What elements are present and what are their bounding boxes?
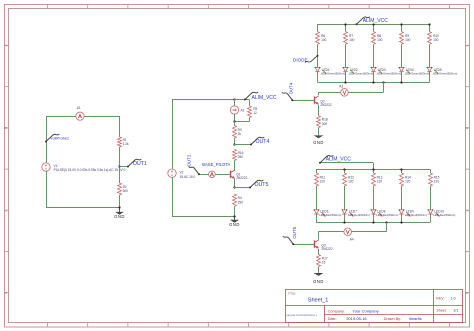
svg-text:C: C (466, 209, 468, 213)
svg-text:LED-Green(563nm): LED-Green(563nm) (377, 71, 402, 75)
transistor Q2 2N2222 (315, 96, 332, 107)
wire V A4 right (352, 231, 387, 233)
svg-text:LED-Red(633nm): LED-Red(633nm) (376, 213, 398, 217)
wire left-top segment b (84, 116, 119, 118)
transistor Q1 2N2222 (231, 170, 248, 180)
wire right vertical bottom (119, 195, 121, 208)
svg-text:OUT5: OUT5 (292, 226, 297, 238)
wire A2-R5 bottom link (234, 121, 250, 123)
wire array2 col1 bottom lead (316, 214, 318, 222)
title value date (346, 316, 367, 321)
svg-text:2N2222: 2N2222 (321, 247, 332, 251)
svg-text:GND: GND (313, 140, 324, 145)
wire array1 col1 R top lead (317, 24, 319, 32)
resistor R14 (400, 173, 412, 186)
junction array2 bottom bus col4 (400, 221, 402, 223)
svg-text:2k: 2k (238, 132, 242, 136)
junction array1 bottom bus col4 (400, 81, 402, 83)
title value Your Company (352, 309, 378, 314)
svg-text:1/1: 1/1 (453, 308, 458, 312)
ground Q2 (313, 135, 324, 145)
junction below A2 (233, 120, 235, 122)
svg-text:OUT2: OUT2 (187, 154, 192, 166)
wire right vertical mid (119, 147, 121, 183)
voltage probe OUT4 at Q2 (282, 82, 294, 101)
transistor Q3 2N2222 (315, 240, 333, 251)
wire array1 col3 mid (373, 44, 375, 67)
resistor R4 (233, 194, 244, 206)
resistor R18 (317, 116, 328, 128)
svg-text:D: D (5, 291, 7, 295)
voltage source V1 (42, 163, 50, 171)
voltage probe OUT4 (250, 137, 269, 146)
LED LED3 (371, 67, 402, 76)
wire A2-R5 top link (234, 99, 250, 101)
svg-text:LED-Green(563nm): LED-Green(563nm) (433, 71, 458, 75)
wire array1 col2 R top lead (345, 24, 347, 32)
svg-text:120: 120 (348, 180, 354, 184)
ammeter A1 (76, 106, 84, 120)
wire Q3 collector riser (318, 232, 320, 240)
svg-text:LED-Red(633nm): LED-Red(633nm) (433, 213, 455, 217)
svg-text:100: 100 (349, 38, 355, 42)
title value 1.0 (450, 297, 455, 301)
wire V A4 left (318, 231, 344, 233)
wire array1 col2 bottom lead (345, 72, 347, 83)
svg-text:A: A (5, 44, 7, 48)
wire middle bottom (172, 216, 234, 218)
svg-text:100: 100 (433, 38, 439, 42)
net probe ALIM_VCC middle (244, 92, 277, 101)
wire Q1 collector joint (234, 170, 236, 171)
wire base left segment (199, 174, 209, 176)
junction array2 top bus col2 (343, 168, 345, 170)
resistor R13 (372, 173, 383, 186)
wire left vertical upper (46, 116, 48, 163)
voltage probe OUT1 (127, 159, 147, 168)
svg-text:300: 300 (322, 122, 328, 126)
wire V A3 riser (383, 82, 385, 92)
junction middle top (233, 98, 235, 100)
title label Date (328, 317, 337, 321)
current probe A2 (230, 106, 244, 114)
wire ALIM_VCC jog array2 (373, 163, 375, 170)
wire R16 to Q1 collector (234, 161, 236, 171)
wire array2 bottom bus (316, 222, 430, 224)
title label Sheet (436, 308, 446, 312)
wire Q3 base (293, 244, 314, 246)
wire left vertical lower (46, 171, 48, 208)
wire Q2 collector riser (318, 92, 320, 95)
resistor R11 (315, 173, 326, 186)
svg-text:Sheet_1: Sheet_1 (308, 298, 329, 304)
wire R4 to bottom (234, 206, 236, 216)
wire array2 col4 mid (401, 186, 403, 210)
LED LED2 (343, 67, 374, 76)
wire base segment (215, 174, 229, 176)
wire array1 col3 R top lead (373, 24, 375, 32)
voltage probe voltProbe1 (45, 134, 69, 143)
wire array1 col1 bottom lead (317, 72, 319, 83)
wire right vertical top (119, 116, 121, 137)
title label REV (436, 297, 444, 301)
LED LED9 (399, 209, 427, 217)
wire R3 to OUT4 (234, 138, 236, 144)
svg-text:ilmartis: ilmartis (409, 316, 422, 321)
svg-text:Drawn By:: Drawn By: (384, 317, 402, 321)
voltage source V2 (168, 169, 176, 177)
svg-text:easyeda.com/ilmartis/Sheet_1: easyeda.com/ilmartis/Sheet_1 (287, 314, 318, 317)
title value Sheet_1 (308, 298, 329, 304)
svg-text:BASE_PILOTA: BASE_PILOTA (202, 162, 230, 167)
svg-text:GND: GND (229, 222, 240, 227)
svg-text:LED-Red(633nm): LED-Red(633nm) (405, 213, 427, 217)
net probe ALIM_VCC array1 (356, 17, 389, 26)
svg-text:15 AC 15 0: 15 AC 15 0 (180, 175, 196, 179)
resistor R15 (429, 173, 440, 186)
resistor R6 (316, 32, 327, 45)
svg-text:100: 100 (377, 38, 383, 42)
wire A2 top pin (234, 100, 236, 106)
svg-text:A2: A2 (241, 108, 245, 112)
ground left circuit (114, 208, 125, 219)
svg-text:100: 100 (405, 38, 411, 42)
junction array2 V-branch (385, 221, 387, 223)
wire array2 col5 mid (430, 186, 432, 210)
wire Q1 emitter down (234, 179, 236, 188)
svg-text:OUT4: OUT4 (289, 82, 294, 94)
LED LED6 (314, 209, 342, 217)
svg-text:LED-Green(563nm): LED-Green(563nm) (349, 71, 374, 75)
wire array2 col5 R top lead (430, 169, 432, 173)
wire R18 to GND (318, 128, 320, 136)
svg-text:ALIM_VCC: ALIM_VCC (252, 95, 277, 101)
svg-text:Company:: Company: (328, 310, 345, 314)
junction array1 top bus col3 (372, 23, 374, 25)
junction at left GND (118, 206, 120, 208)
resistor R16 (233, 150, 244, 161)
node OUT4 junction (233, 143, 235, 145)
svg-text:LED-Red(633nm): LED-Red(633nm) (348, 213, 370, 217)
resistor R1 (118, 137, 130, 147)
junction array2 bottom bus col3 (372, 221, 374, 223)
svg-text:GND: GND (114, 214, 125, 219)
resistor R12 (343, 173, 355, 186)
title label Drawn By (384, 317, 402, 321)
wire Q2 base (292, 100, 314, 102)
wire array2 col3 R top lead (373, 169, 375, 173)
wire to R3 (234, 121, 236, 125)
title value 1/1 (453, 308, 458, 312)
wire OUT5 stub (234, 187, 250, 189)
junction array2 bottom bus col2 (343, 221, 345, 223)
wire array1 col4 bottom lead (401, 72, 403, 83)
svg-text:12: 12 (253, 111, 257, 115)
junction array1 bottom bus col2 (344, 81, 346, 83)
svg-text:300: 300 (123, 189, 129, 193)
title value author (409, 316, 422, 321)
wire middle left upper (172, 100, 174, 169)
title label TITLE (288, 292, 296, 296)
net probe DIODE (293, 55, 319, 63)
voltage probe OUT2 (187, 154, 200, 175)
svg-text:250: 250 (238, 155, 244, 159)
wire middle top (172, 99, 234, 101)
svg-text:GND: GND (313, 279, 324, 284)
svg-text:LED-Red(633nm): LED-Red(633nm) (319, 213, 341, 217)
svg-text:ALIM_VCC: ALIM_VCC (326, 156, 351, 162)
svg-text:Date:: Date: (328, 317, 337, 321)
svg-text:2N2222: 2N2222 (236, 176, 247, 180)
wire array1 col5 bottom lead (429, 72, 431, 83)
LED LED8 (371, 209, 399, 217)
junction array1 top bus col4 (400, 23, 402, 25)
wire array2 col1 R top lead (316, 169, 318, 173)
wire array2 col1 mid (316, 186, 318, 210)
wire array2 col2 mid (344, 186, 346, 210)
svg-text:A1: A1 (77, 106, 81, 110)
wire OUT1 stub (119, 166, 128, 168)
LED LED7 (342, 209, 370, 217)
wire Q3 emitter down (318, 249, 320, 255)
title url (287, 314, 318, 317)
svg-text:DIODE: DIODE (293, 57, 308, 62)
svg-text:REV:: REV: (436, 297, 444, 301)
svg-text:250: 250 (238, 200, 244, 204)
wire ALIM_VCC stub array2 (320, 162, 373, 164)
resistor R9 (400, 32, 411, 45)
resistor R17 (317, 255, 328, 267)
junction array1 V-branch (382, 81, 384, 83)
svg-text:OUT5: OUT5 (255, 182, 269, 188)
wire array2 col2 R top lead (344, 169, 346, 173)
resistor R2 (118, 183, 129, 195)
wire R17 to GND (318, 267, 320, 273)
wire R5 bottom lead (249, 118, 251, 122)
wire array1 bottom bus (318, 82, 430, 84)
resistor R7 (344, 32, 355, 45)
wire R5 top lead (249, 100, 251, 106)
svg-text:15: 15 (322, 261, 326, 265)
LED LED5 (427, 67, 458, 76)
svg-text:TITLE:: TITLE: (288, 292, 296, 296)
wire array1 col4 R top lead (401, 24, 403, 32)
junction array1 top bus col5 (428, 23, 430, 25)
junction array1 top bus col2 (344, 23, 346, 25)
svg-text:Sheet:: Sheet: (436, 308, 446, 312)
wire left bottom (46, 207, 119, 209)
label V1 value (54, 168, 126, 172)
wire Q2 emitter down (318, 105, 320, 116)
ground Q3 (313, 273, 324, 284)
label V2 value (180, 175, 196, 179)
junction middle GND (233, 215, 235, 217)
net label BASE_PILOTA (202, 162, 230, 167)
wire array2 col2 bottom lead (344, 214, 346, 222)
svg-text:120: 120 (377, 180, 383, 184)
svg-text:100: 100 (321, 38, 327, 42)
svg-text:120: 120 (434, 180, 440, 184)
net probe ALIM_VCC array2 (319, 155, 351, 164)
svg-text:voltProbe1: voltProbe1 (51, 136, 70, 141)
wire array1 col3 bottom lead (373, 72, 375, 83)
LED LED10 (428, 209, 456, 217)
wire V A3 left (318, 92, 341, 94)
ammeter BASE_PILOTA (209, 171, 216, 178)
svg-text:120: 120 (405, 180, 411, 184)
wire A2 bottom pin (234, 114, 236, 121)
svg-text:LED-Green(563nm): LED-Green(563nm) (321, 71, 346, 75)
wire array2 col3 bottom lead (373, 214, 375, 222)
svg-text:D: D (466, 291, 468, 295)
resistor R8 (372, 32, 383, 45)
svg-text:A4: A4 (350, 238, 354, 242)
wire array2 col5 bottom lead (430, 214, 432, 222)
junction array1 bottom bus col3 (372, 81, 374, 83)
svg-text:A: A (466, 44, 468, 48)
voltmeter A3 (339, 85, 348, 97)
wire array1 col1 mid (317, 44, 319, 67)
wire OUT4 stub (234, 144, 251, 146)
wire array1 col2 mid (345, 44, 347, 67)
title label Company (328, 310, 345, 314)
wire array2 col4 bottom lead (401, 214, 403, 222)
ground middle circuit (229, 217, 240, 228)
svg-text:1.0: 1.0 (450, 297, 455, 301)
junction array2 top bus col3 (372, 168, 374, 170)
svg-text:LED-Green(563nm): LED-Green(563nm) (405, 71, 430, 75)
wire array2 col3 mid (373, 186, 375, 210)
svg-text:C: C (5, 209, 7, 213)
wire array2 top bus (316, 169, 430, 171)
svg-text:A3: A3 (339, 85, 343, 89)
resistor R5 (248, 106, 258, 118)
svg-text:2019-05-16: 2019-05-16 (346, 316, 367, 321)
svg-text:ALIM_VCC: ALIM_VCC (363, 18, 388, 24)
svg-text:B: B (5, 126, 7, 130)
wire V A3 right (348, 92, 383, 94)
wire middle left lower (172, 177, 174, 216)
svg-text:B: B (466, 126, 468, 130)
voltmeter A4 (344, 228, 354, 242)
resistor R3 (233, 126, 242, 139)
svg-text:OUT4: OUT4 (256, 139, 270, 145)
wire array1 top bus (318, 24, 430, 26)
svg-text:2N2222: 2N2222 (320, 103, 331, 107)
voltage probe OUT5 (249, 180, 268, 189)
resistor R10 (428, 32, 440, 45)
svg-text:Your Company: Your Company (352, 309, 378, 314)
LED LED1 (315, 67, 346, 76)
wire array1 col5 mid (429, 44, 431, 67)
voltage probe OUT5 at Q3 (283, 226, 297, 245)
node OUT1 junction (118, 165, 120, 167)
label V2 name (180, 171, 184, 175)
LED LED4 (399, 67, 430, 76)
wire array1 col4 mid (401, 44, 403, 67)
wire array2 col4 R top lead (401, 169, 403, 173)
svg-text:OUT1: OUT1 (133, 161, 147, 167)
junction array2 top bus col4 (400, 168, 402, 170)
node OUT5 junction (233, 186, 235, 188)
wire array1 col5 R top lead (429, 24, 431, 32)
title block frame (286, 290, 463, 323)
label V1 name (54, 164, 58, 168)
wire V A4 riser (386, 222, 388, 231)
svg-text:PULSE(0 15.0V 0 0.05s 0.05s 0.: PULSE(0 15.0V 0 0.05s 0.05s 0.5s 1s) AC … (54, 168, 126, 172)
wire left-top segment a (46, 116, 76, 118)
svg-text:1.2k: 1.2k (123, 142, 129, 146)
svg-text:120: 120 (320, 180, 326, 184)
